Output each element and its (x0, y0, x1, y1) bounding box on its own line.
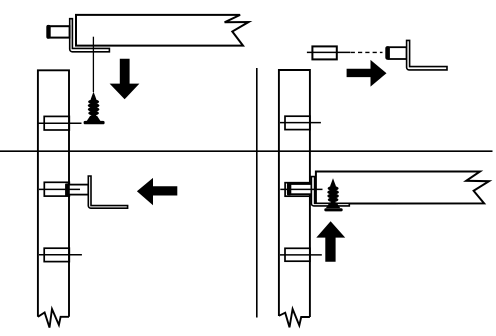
right shelf board with torn end (316, 172, 489, 204)
right shelf corner bracket (311, 177, 349, 206)
screw A (86, 92, 100, 122)
left panel hole 2 (44, 182, 69, 196)
left panel hole 3 (44, 248, 69, 261)
right side panel break (jagged bottom) (279, 309, 310, 327)
top-left shelf board with torn end (76, 15, 249, 46)
pin cap (66, 184, 69, 195)
right-middle cam pin in hole 2 (288, 184, 311, 194)
left-middle corner bracket (88, 176, 127, 208)
right panel hole 2 (285, 183, 310, 197)
vertical divider line (256, 68, 258, 318)
top-right pin body (389, 47, 407, 59)
top-left pin cap (47, 25, 50, 38)
right arrow (347, 60, 387, 87)
right hole 2 axis line (280, 188, 322, 190)
screw B (326, 178, 340, 208)
top-left corner bracket (70, 19, 110, 52)
up arrow (316, 221, 345, 262)
down arrow (110, 59, 140, 100)
dowel axis line dashed (351, 51, 383, 53)
horizontal divider line (0, 150, 493, 152)
right side panel (279, 70, 310, 317)
hole 2 axis line (39, 188, 80, 190)
left-middle cam pin in hole 2 (66, 185, 88, 195)
top-left dowel pin (48, 26, 70, 37)
left panel hole 1 (44, 116, 69, 130)
left side panel (38, 70, 69, 316)
left arrow (137, 178, 177, 205)
hole 1 axis line (39, 122, 82, 124)
top-right pin cap (386, 47, 390, 60)
right hole 3 axis line (280, 254, 322, 256)
dowel axis line solid (307, 51, 350, 53)
left side panel break (jagged bottom) (38, 309, 69, 328)
top-right dowel (side view) (312, 46, 336, 59)
right pin cap (287, 183, 290, 194)
top-right corner bracket (407, 40, 447, 70)
screw guide line (92, 37, 94, 92)
hole 3 axis line (39, 254, 82, 256)
right hole 1 axis line (280, 122, 321, 124)
right panel hole 3 (285, 248, 310, 261)
right panel hole 1 (285, 116, 310, 129)
